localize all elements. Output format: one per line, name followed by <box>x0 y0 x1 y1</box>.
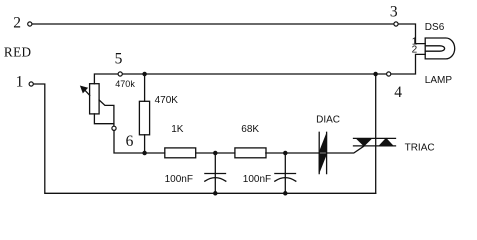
svg-text:1K: 1K <box>171 124 184 135</box>
svg-text:1: 1 <box>412 36 418 47</box>
svg-text:TRIAC: TRIAC <box>405 143 435 154</box>
svg-text:RED: RED <box>4 45 32 60</box>
svg-text:470K: 470K <box>155 95 179 106</box>
svg-text:LAMP: LAMP <box>425 75 453 86</box>
svg-text:DIAC: DIAC <box>316 114 340 125</box>
svg-text:100nF: 100nF <box>243 174 271 185</box>
svg-text:DS6: DS6 <box>425 22 445 33</box>
svg-text:470k: 470k <box>115 79 135 89</box>
svg-text:2: 2 <box>13 14 21 31</box>
svg-text:4: 4 <box>394 84 402 101</box>
svg-text:100nF: 100nF <box>165 174 193 185</box>
svg-text:68K: 68K <box>241 124 259 135</box>
svg-text:5: 5 <box>115 51 123 68</box>
svg-text:6: 6 <box>126 133 134 150</box>
svg-text:3: 3 <box>390 4 398 21</box>
svg-text:1: 1 <box>16 74 24 91</box>
